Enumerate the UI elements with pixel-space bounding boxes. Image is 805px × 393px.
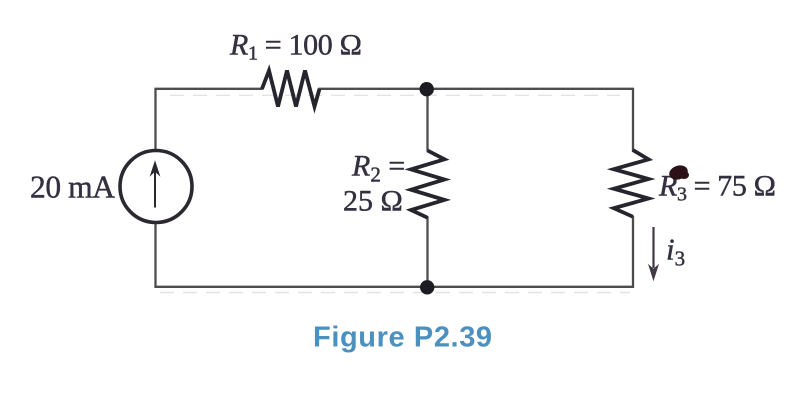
- svg-text:Figure P2.39: Figure P2.39: [313, 322, 493, 354]
- svg-text:20 mA: 20 mA: [30, 169, 115, 204]
- svg-text:25 Ω: 25 Ω: [343, 184, 403, 217]
